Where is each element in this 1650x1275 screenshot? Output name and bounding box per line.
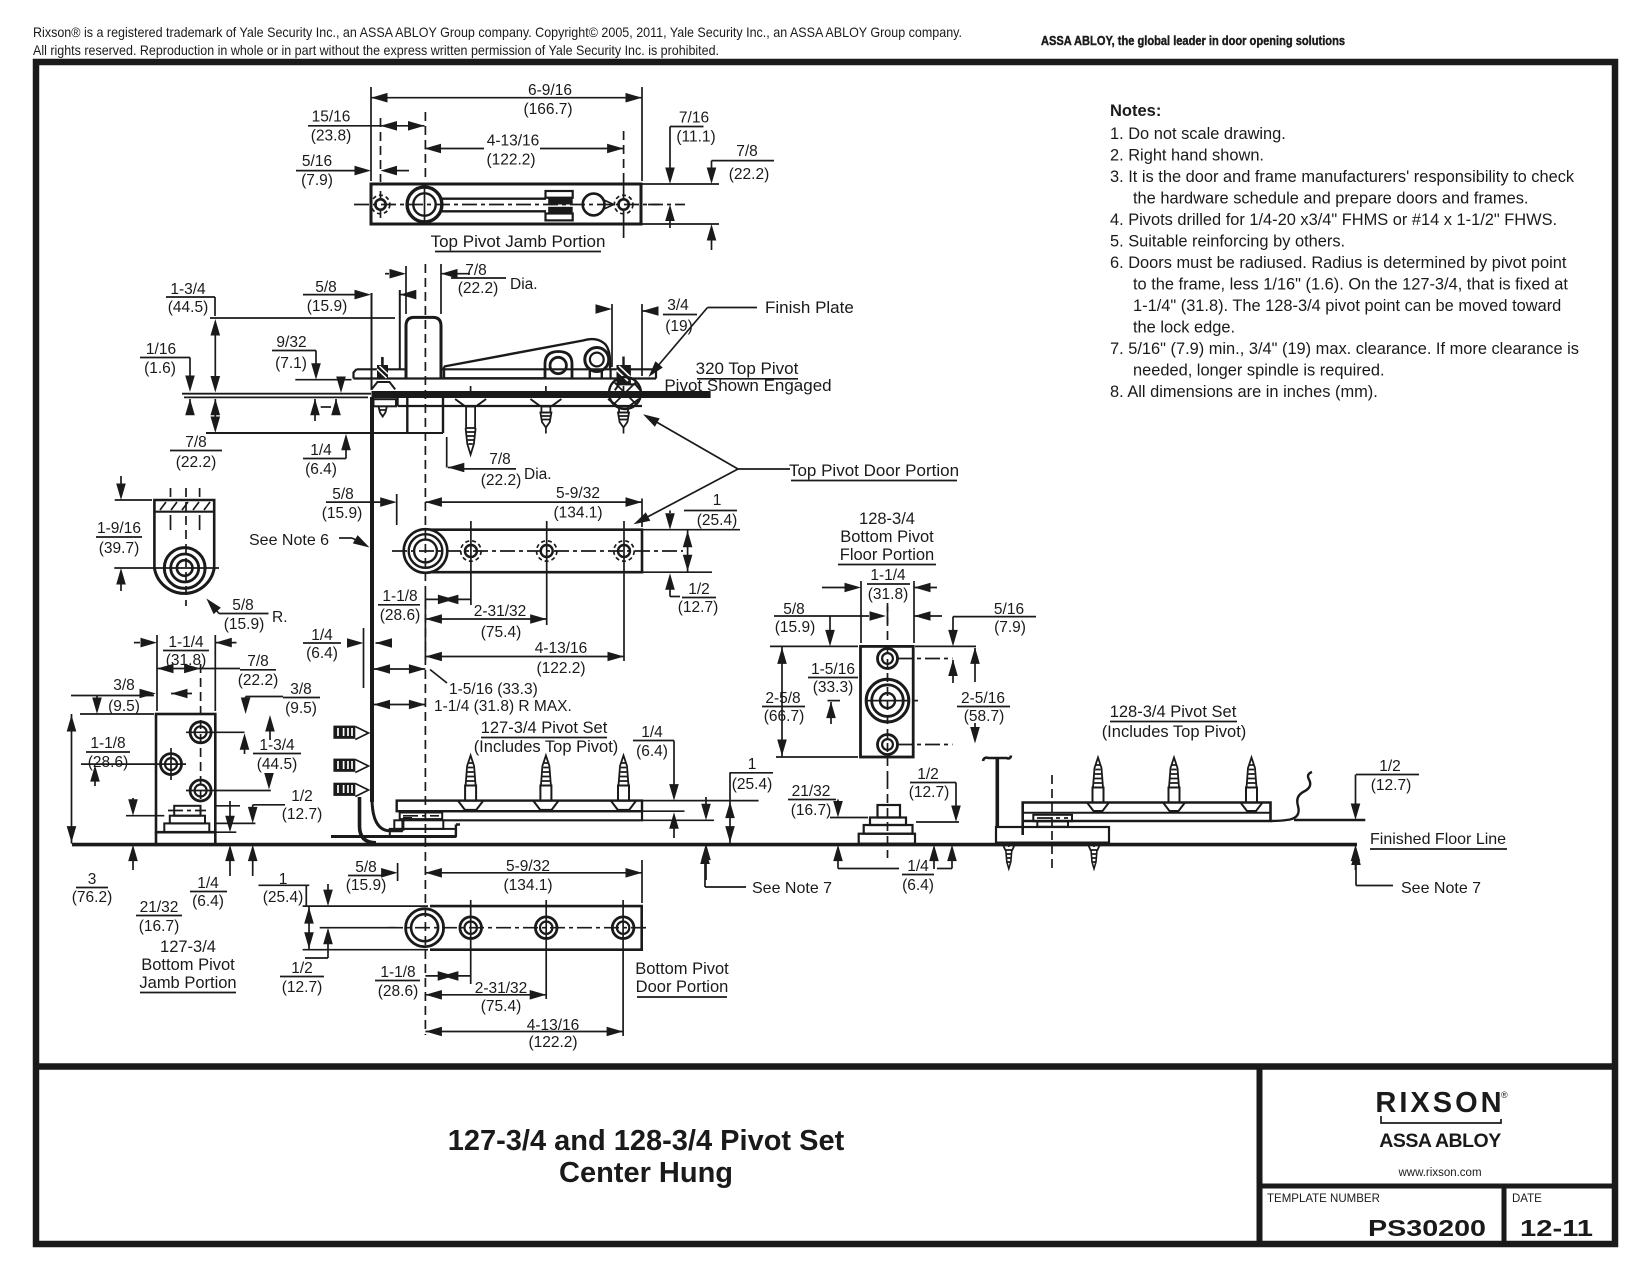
floor portion top plate — [397, 801, 642, 812]
svg-text:ASSA ABLOY: ASSA ABLOY — [1379, 1130, 1501, 1152]
svg-text:5/16: 5/16 — [994, 601, 1024, 618]
svg-text:(12.7): (12.7) — [909, 784, 950, 801]
dim 1/2 (12.7) door bottom — [701, 797, 711, 880]
dim 2-5/16 (58.7) — [957, 647, 1010, 743]
svg-text:2-5/8: 2-5/8 — [765, 690, 800, 707]
dim 2-5/8 (66.7) — [762, 646, 858, 757]
dim 3/8 (9.5) right — [241, 681, 320, 740]
frame profile curl to floor — [360, 797, 377, 843]
dim 1-3/4 (44.5) jamb portion — [240, 733, 301, 789]
dome (pivot housing) — [406, 317, 441, 378]
svg-text:(12.7): (12.7) — [678, 599, 719, 616]
svg-text:127-3/4 Pivot Set: 127-3/4 Pivot Set — [481, 719, 608, 737]
end view pivot circles — [114, 548, 219, 589]
128 case screw 3 up — [1241, 758, 1263, 812]
frame anchor clip 2 — [333, 759, 368, 773]
svg-text:Top Pivot Jamb Portion: Top Pivot Jamb Portion — [431, 232, 606, 251]
floor portion lower bar — [443, 811, 642, 820]
svg-text:(6.4): (6.4) — [902, 877, 934, 894]
svg-text:1/4: 1/4 — [311, 627, 333, 644]
dim 1 (25.4) jamb portion disc — [215, 805, 240, 807]
dim 3/8 (9.5) left — [71, 677, 192, 715]
svg-text:See Note 7: See Note 7 — [1401, 880, 1481, 897]
dim 1-1/4 (31.8) jamb portion — [134, 634, 237, 711]
svg-text:Bottom Pivot: Bottom Pivot — [635, 960, 729, 978]
finish plate — [354, 369, 657, 378]
arm (walking beam) — [444, 339, 610, 379]
svg-text:(25.4): (25.4) — [697, 512, 738, 529]
svg-text:1/2: 1/2 — [291, 960, 313, 977]
dim 5/16 (7.9) — [915, 601, 1036, 683]
floor screw 2 up — [533, 756, 558, 810]
128 under-door disc — [1033, 815, 1072, 827]
svg-text:Finish Plate: Finish Plate — [765, 298, 854, 317]
dim 1-1/8 (28.6) jamb portion — [80, 696, 154, 786]
svg-text:1/2: 1/2 — [917, 766, 939, 783]
svg-text:(28.6): (28.6) — [88, 754, 129, 771]
128 base plate — [996, 827, 1109, 843]
dim 1-1/4 (31.8) R MAX. — [374, 698, 572, 715]
svg-text:21/32: 21/32 — [140, 899, 179, 916]
svg-text:12-11: 12-11 — [1520, 1215, 1593, 1241]
under-door pivot disc — [390, 813, 456, 837]
right screw head (hatched) — [615, 357, 641, 391]
See Note 7 left — [700, 848, 832, 898]
svg-text:(7.1): (7.1) — [275, 355, 307, 372]
svg-text:(122.2): (122.2) — [528, 1034, 577, 1051]
dim 5-9/32 (134.1) top plate — [425, 485, 642, 527]
bp hole 1 — [460, 900, 482, 984]
svg-text:1-1/8: 1-1/8 — [90, 735, 125, 752]
floor screw 1 up — [458, 756, 483, 810]
svg-text:1/4: 1/4 — [907, 858, 929, 875]
svg-text:Finished Floor Line: Finished Floor Line — [1370, 831, 1506, 848]
plate lower sides to floor — [156, 832, 215, 843]
right pivot block — [609, 369, 611, 380]
latch block — [546, 191, 573, 220]
128 case screw 2 up — [1163, 758, 1185, 812]
dim 1-9/16 (39.7) — [96, 476, 152, 591]
svg-text:(11.1): (11.1) — [676, 129, 715, 146]
frame anchor clip 3 — [333, 783, 368, 797]
svg-text:www.rixson.com: www.rixson.com — [1397, 1167, 1481, 1179]
svg-text:5-9/32: 5-9/32 — [556, 485, 600, 502]
dim 5/8 (15.9) bottom — [346, 859, 398, 894]
svg-text:(15.9): (15.9) — [346, 877, 387, 894]
svg-text:(28.6): (28.6) — [380, 607, 421, 624]
svg-text:6. Doors must be radiused. Rad: 6. Doors must be radiused. Radius is det… — [1110, 254, 1567, 272]
svg-text:5/8: 5/8 — [355, 859, 377, 876]
svg-text:1-3/4: 1-3/4 — [170, 281, 206, 298]
svg-text:1/4: 1/4 — [310, 442, 332, 459]
dim 1 (25.4) bottom plate — [259, 871, 314, 950]
svg-text:2-5/16: 2-5/16 — [961, 690, 1005, 707]
svg-text:Center Hung: Center Hung — [559, 1157, 733, 1189]
svg-text:(28.6): (28.6) — [378, 983, 419, 1000]
extension line pivot axis — [424, 595, 426, 660]
svg-text:7. 5/16" (7.9) min., 3/4" (19): 7. 5/16" (7.9) min., 3/4" (19) max. clea… — [1110, 340, 1579, 358]
svg-text:(39.7): (39.7) — [99, 540, 140, 557]
svg-text:1-1/4: 1-1/4 — [168, 634, 204, 651]
dim 5/8 (15.9) at dome — [303, 279, 416, 369]
end view screw ticks — [171, 488, 200, 530]
svg-text:7/8: 7/8 — [489, 451, 511, 468]
See Note 7 right — [1351, 849, 1481, 898]
128 floor portion label — [838, 510, 936, 565]
svg-text:(9.5): (9.5) — [285, 700, 317, 717]
svg-text:(22.2): (22.2) — [238, 672, 279, 689]
See Note 6 label — [249, 532, 372, 552]
upper hole — [186, 722, 245, 743]
dim 21/32 (16.7) 128 stack — [788, 783, 868, 819]
dim 2-31/32 (75.4) — [425, 581, 546, 641]
svg-text:TEMPLATE NUMBER: TEMPLATE NUMBER — [1267, 1193, 1380, 1205]
dim 21/32 (16.7) jamb portion — [126, 798, 182, 935]
title block top divider — [36, 1063, 1615, 1070]
ext lines right of floor plate — [643, 800, 759, 802]
center pivot hole — [407, 185, 442, 224]
dim 5/8 (15.9) plate — [322, 486, 397, 525]
dim 7/8 (22.2) jamb portion — [157, 653, 278, 689]
Bottom Pivot Door Portion label — [635, 960, 729, 997]
dim 1/2 (12.7) door bottom right — [1351, 758, 1419, 870]
hole 2 — [537, 521, 557, 581]
pivot centerline (vertical dashed) — [424, 112, 426, 181]
dim 1/4 (6.4) socket — [303, 434, 351, 478]
door screw 1 — [455, 386, 486, 455]
svg-text:3. It is the door and frame ma: 3. It is the door and frame manufacturer… — [1110, 168, 1575, 186]
door bottom line right — [1294, 819, 1365, 821]
dim 1/2 (12.7) plate — [665, 573, 718, 616]
svg-text:(76.2): (76.2) — [72, 889, 113, 906]
svg-text:(122.2): (122.2) — [536, 660, 585, 677]
svg-text:1/4: 1/4 — [197, 875, 219, 892]
svg-text:1-5/16: 1-5/16 — [811, 661, 855, 678]
header top ref line — [210, 317, 395, 319]
plate body — [404, 529, 642, 573]
dim 7/8 (22.2) left lower — [170, 399, 222, 471]
dim 1 (25.4) plate height — [643, 492, 740, 572]
right hole — [614, 176, 633, 238]
svg-text:(6.4): (6.4) — [305, 461, 337, 478]
127-3/4 Bottom Pivot Jamb Portion label — [139, 938, 236, 993]
finished floor line — [72, 843, 1357, 847]
dim 1/2 (12.7) jamb portion — [215, 788, 322, 876]
svg-text:(25.4): (25.4) — [732, 776, 773, 793]
svg-text:(25.4): (25.4) — [263, 889, 304, 906]
left jamb screw — [372, 357, 397, 417]
svg-text:(44.5): (44.5) — [168, 299, 209, 316]
dim 1 (25.4) floor plate height — [725, 756, 773, 843]
template row divider — [1260, 1184, 1616, 1189]
door portion channel line — [398, 398, 642, 406]
svg-text:(7.9): (7.9) — [301, 172, 333, 189]
svg-text:5/16: 5/16 — [302, 153, 332, 170]
svg-text:7/16: 7/16 — [679, 110, 709, 127]
svg-text:7/8: 7/8 — [736, 143, 758, 160]
svg-text:(75.4): (75.4) — [481, 624, 522, 641]
svg-text:6-9/16: 6-9/16 — [528, 82, 572, 99]
svg-text:1-1/4 (31.8) R MAX.: 1-1/4 (31.8) R MAX. — [434, 698, 572, 715]
svg-text:(6.4): (6.4) — [192, 893, 224, 910]
disc steps in plate — [164, 806, 209, 832]
svg-text:5. Suitable reinforcing by oth: 5. Suitable reinforcing by others. — [1110, 233, 1345, 251]
plate centerline — [392, 550, 683, 552]
svg-text:(19): (19) — [665, 318, 693, 335]
latch knob — [583, 194, 605, 216]
dim 1/4 (6.4) jamb portion — [190, 801, 236, 910]
svg-text:(Includes Top Pivot): (Includes Top Pivot) — [474, 738, 619, 756]
svg-text:(1.6): (1.6) — [144, 360, 176, 377]
dim 1-3/4 (44.5) — [166, 281, 220, 393]
plate centerline — [354, 204, 659, 206]
dim 5-9/32 (134.1) bottom — [425, 858, 642, 903]
svg-text:See Note 6: See Note 6 — [249, 532, 329, 549]
svg-text:1-1/4" (31.8). The 128-3/4 pi: 1-1/4" (31.8). The 128-3/4 pivot point c… — [1133, 297, 1561, 315]
svg-text:needed, longer spindle is requ: needed, longer spindle is required. — [1133, 362, 1385, 380]
frame stop vertical (thin) — [371, 293, 373, 390]
svg-text:(15.9): (15.9) — [307, 298, 348, 315]
dim 1/4 (6.4) floor plate — [633, 724, 679, 838]
svg-text:1. Do not scale drawing.: 1. Do not scale drawing. — [1110, 125, 1286, 143]
floor screw 3 up — [611, 756, 636, 810]
svg-text:(6.4): (6.4) — [306, 645, 338, 662]
lower hole — [186, 780, 271, 801]
door screw 2 — [530, 386, 561, 434]
hole 3 — [614, 521, 634, 581]
svg-text:(Includes Top Pivot): (Includes Top Pivot) — [1102, 723, 1247, 741]
svg-text:3: 3 — [88, 871, 97, 888]
dim 4-13/16 (122.2) top — [425, 131, 624, 176]
svg-text:Jamb Portion: Jamb Portion — [139, 974, 236, 992]
dim 7/16 (11.1) — [641, 110, 719, 229]
top pivot spindle cap — [983, 756, 1011, 762]
svg-text:5/8: 5/8 — [315, 279, 337, 296]
svg-text:128-3/4: 128-3/4 — [859, 510, 915, 528]
128 case screw 1 up — [1087, 758, 1109, 812]
svg-text:9/32: 9/32 — [276, 334, 306, 351]
frame anchor clip 1 — [333, 726, 368, 740]
svg-text:(75.4): (75.4) — [481, 998, 522, 1015]
svg-text:8. All dimensions are in inche: 8. All dimensions are in inches (mm). — [1110, 383, 1378, 401]
dim 3 (76.2) — [67, 714, 113, 906]
svg-text:21/32: 21/32 — [792, 783, 831, 800]
svg-text:Bottom Pivot: Bottom Pivot — [840, 528, 934, 546]
svg-text:Door Portion: Door Portion — [636, 978, 729, 996]
128 floor screw right — [1088, 843, 1101, 869]
svg-text:(12.7): (12.7) — [282, 979, 323, 996]
svg-text:2. Right hand shown.: 2. Right hand shown. — [1110, 147, 1264, 165]
svg-text:7/8: 7/8 — [465, 262, 487, 279]
svg-text:1-1/8: 1-1/8 — [382, 588, 417, 605]
svg-text:1-1/4: 1-1/4 — [870, 567, 906, 584]
dim 7/8 (22.2) Dia. socket — [447, 437, 552, 489]
header/door gap thin lines — [182, 393, 371, 395]
127-3/4 Pivot Set label — [474, 719, 619, 756]
128 floor stack — [859, 780, 915, 858]
dim 2-31/32 (75.4) bp — [425, 980, 546, 1015]
svg-text:Dia.: Dia. — [524, 466, 552, 483]
svg-text:(44.5): (44.5) — [257, 756, 298, 773]
svg-text:(6.4): (6.4) — [636, 743, 668, 760]
svg-text:Bottom Pivot: Bottom Pivot — [141, 956, 235, 974]
svg-text:1/4: 1/4 — [641, 724, 663, 741]
svg-text:1-3/4: 1-3/4 — [259, 737, 295, 754]
svg-text:ASSA ABLOY, the global leader: ASSA ABLOY, the global leader in door op… — [1041, 34, 1345, 48]
door bottom edge line — [331, 835, 456, 838]
svg-text:DATE: DATE — [1512, 1193, 1542, 1205]
title block left divider — [1257, 1067, 1263, 1245]
svg-text:(12.7): (12.7) — [1371, 777, 1412, 794]
svg-text:Pivot Shown Engaged: Pivot Shown Engaged — [664, 376, 831, 395]
svg-text:4-13/16: 4-13/16 — [535, 640, 588, 657]
dim 1-1/4 (31.8) 128 plate — [822, 567, 937, 643]
hole 1 — [461, 521, 481, 581]
dim 1/16 (1.6) — [140, 341, 195, 415]
svg-text:Dia.: Dia. — [510, 276, 538, 293]
dim 1-1/8 (28.6) bp — [375, 964, 471, 1000]
svg-text:(7.9): (7.9) — [994, 619, 1026, 636]
dim 3/4 (19) — [596, 297, 698, 376]
svg-text:(33.3): (33.3) — [813, 679, 854, 696]
bp hole 2 — [535, 900, 557, 999]
svg-text:(134.1): (134.1) — [503, 877, 552, 894]
svg-text:1/2: 1/2 — [1379, 758, 1401, 775]
svg-text:(16.7): (16.7) — [139, 918, 180, 935]
svg-text:127-3/4 and 128-3/4 Pivot Set: 127-3/4 and 128-3/4 Pivot Set — [448, 1125, 845, 1157]
dim 5/8 (15.9) bp — [0, 0, 1, 1]
left hole — [81, 748, 186, 780]
svg-text:(31.8): (31.8) — [868, 586, 909, 603]
dim 7/8 (22.2) right of jamb plate — [641, 143, 774, 250]
svg-text:1/16: 1/16 — [146, 341, 176, 358]
lower pivot hole — [878, 735, 953, 755]
svg-text:1: 1 — [713, 492, 722, 509]
svg-text:5/8: 5/8 — [232, 597, 254, 614]
end view centerline — [185, 488, 187, 606]
svg-text:1: 1 — [748, 756, 757, 773]
ext lines left of bottom plate — [303, 905, 428, 907]
dim 1-5/16 (33.3) — [374, 664, 538, 698]
dim 7/8 (22.2) Dia. dome — [385, 262, 538, 314]
svg-text:4-13/16: 4-13/16 — [487, 133, 540, 150]
upper pivot hole — [878, 649, 953, 669]
svg-text:PS30200: PS30200 — [1368, 1215, 1486, 1241]
svg-text:(166.7): (166.7) — [523, 101, 572, 118]
svg-text:7/8: 7/8 — [185, 434, 207, 451]
door top line (thick) — [372, 391, 711, 398]
svg-text:3/8: 3/8 — [113, 677, 135, 694]
svg-text:128-3/4 Pivot Set: 128-3/4 Pivot Set — [1110, 703, 1237, 721]
128 set label — [1102, 703, 1247, 741]
dim 1/2 (12.7) 128 stack — [909, 766, 961, 869]
left hole — [371, 191, 390, 218]
svg-text:See Note 7: See Note 7 — [752, 880, 832, 897]
svg-text:(22.2): (22.2) — [458, 280, 499, 297]
door bottom corner radius — [372, 798, 412, 831]
pivot socket in door — [407, 398, 443, 433]
dim 1-5/16 (33.3) 128 — [808, 617, 858, 725]
svg-text:1/2: 1/2 — [688, 581, 710, 598]
socket bottom line — [206, 432, 443, 434]
svg-text:(122.2): (122.2) — [486, 152, 535, 169]
spindle stem — [995, 759, 999, 827]
svg-text:(15.9): (15.9) — [224, 616, 265, 633]
128 floor screw left — [1002, 843, 1015, 869]
bottom plate centerline — [388, 927, 649, 929]
Finished Floor Line label — [1370, 831, 1507, 849]
end view body — [154, 500, 214, 593]
bp hole 3 — [612, 900, 634, 1036]
svg-text:®: ® — [1501, 1090, 1508, 1100]
svg-text:(15.9): (15.9) — [775, 619, 816, 636]
svg-text:1-9/16: 1-9/16 — [97, 520, 141, 537]
svg-text:7/8: 7/8 — [247, 653, 269, 670]
svg-text:4. Pivots drilled for 1/4-20 x: 4. Pivots drilled for 1/4-20 x3/4" FHMS … — [1110, 211, 1557, 229]
dim 6-9/16 (166.7) — [371, 82, 642, 181]
128 case — [1023, 803, 1271, 836]
jamb portion plate — [156, 714, 215, 832]
svg-text:the hardware schedule and prep: the hardware schedule and prepare doors … — [1133, 190, 1528, 208]
svg-text:(22.2): (22.2) — [729, 166, 770, 183]
Finish Plate label — [645, 298, 854, 380]
plate centerline — [887, 603, 889, 780]
dim 15/16 (23.8) — [308, 109, 425, 183]
floor portion plate — [861, 646, 914, 757]
dim 5/16 (7.9) — [296, 153, 409, 189]
svg-text:127-3/4: 127-3/4 — [160, 938, 216, 956]
svg-text:(12.7): (12.7) — [282, 806, 323, 823]
svg-text:5/8: 5/8 — [332, 486, 354, 503]
dim 5/8 (15.9) 128 plate — [774, 601, 942, 636]
svg-text:2-31/32: 2-31/32 — [474, 603, 527, 620]
dim 1-1/8 (28.6) — [378, 581, 471, 624]
svg-text:(15.9): (15.9) — [322, 505, 363, 522]
hole column centerline — [200, 664, 202, 800]
svg-text:(22.2): (22.2) — [481, 472, 522, 489]
right pivot bushing circle — [609, 377, 641, 409]
svg-text:the lock edge.: the lock edge. — [1133, 319, 1235, 337]
svg-text:3/8: 3/8 — [290, 681, 312, 698]
svg-text:Floor Portion: Floor Portion — [840, 546, 934, 564]
svg-text:Notes:: Notes: — [1110, 102, 1161, 120]
svg-text:Rixson® is a registered tradem: Rixson® is a registered trademark of Yal… — [33, 24, 962, 40]
svg-text:R.: R. — [272, 609, 288, 626]
svg-text:All rights reserved. Reproduct: All rights reserved. Reproduction in who… — [33, 42, 719, 58]
dim 1/4 (6.4) door face — [303, 627, 392, 688]
svg-text:(134.1): (134.1) — [553, 505, 602, 522]
door face vertical (thick) — [370, 397, 374, 802]
jamb plate — [371, 184, 641, 224]
svg-text:(58.7): (58.7) — [964, 708, 1005, 725]
dim 4-13/16 (122.2) bp — [425, 1017, 623, 1051]
dim 9/32 (7.1) — [272, 334, 352, 421]
main pivot — [828, 679, 919, 722]
svg-text:(16.7): (16.7) — [791, 802, 832, 819]
svg-text:Top Pivot Door Portion: Top Pivot Door Portion — [789, 461, 959, 480]
svg-text:(9.5): (9.5) — [108, 698, 140, 715]
Top Pivot Door Portion label — [631, 410, 959, 528]
dim 5/8 (15.9) R. — [203, 595, 288, 633]
bottom plate body — [406, 906, 642, 950]
slide rod — [441, 199, 546, 212]
dim 1/4 (6.4) 128 floor — [833, 845, 957, 894]
128 centerline — [1051, 775, 1053, 868]
svg-text:1-5/16 (33.3): 1-5/16 (33.3) — [449, 681, 538, 698]
svg-text:(66.7): (66.7) — [764, 708, 805, 725]
svg-text:RIXSON: RIXSON — [1375, 1087, 1504, 1119]
door break squiggle — [1271, 772, 1313, 821]
